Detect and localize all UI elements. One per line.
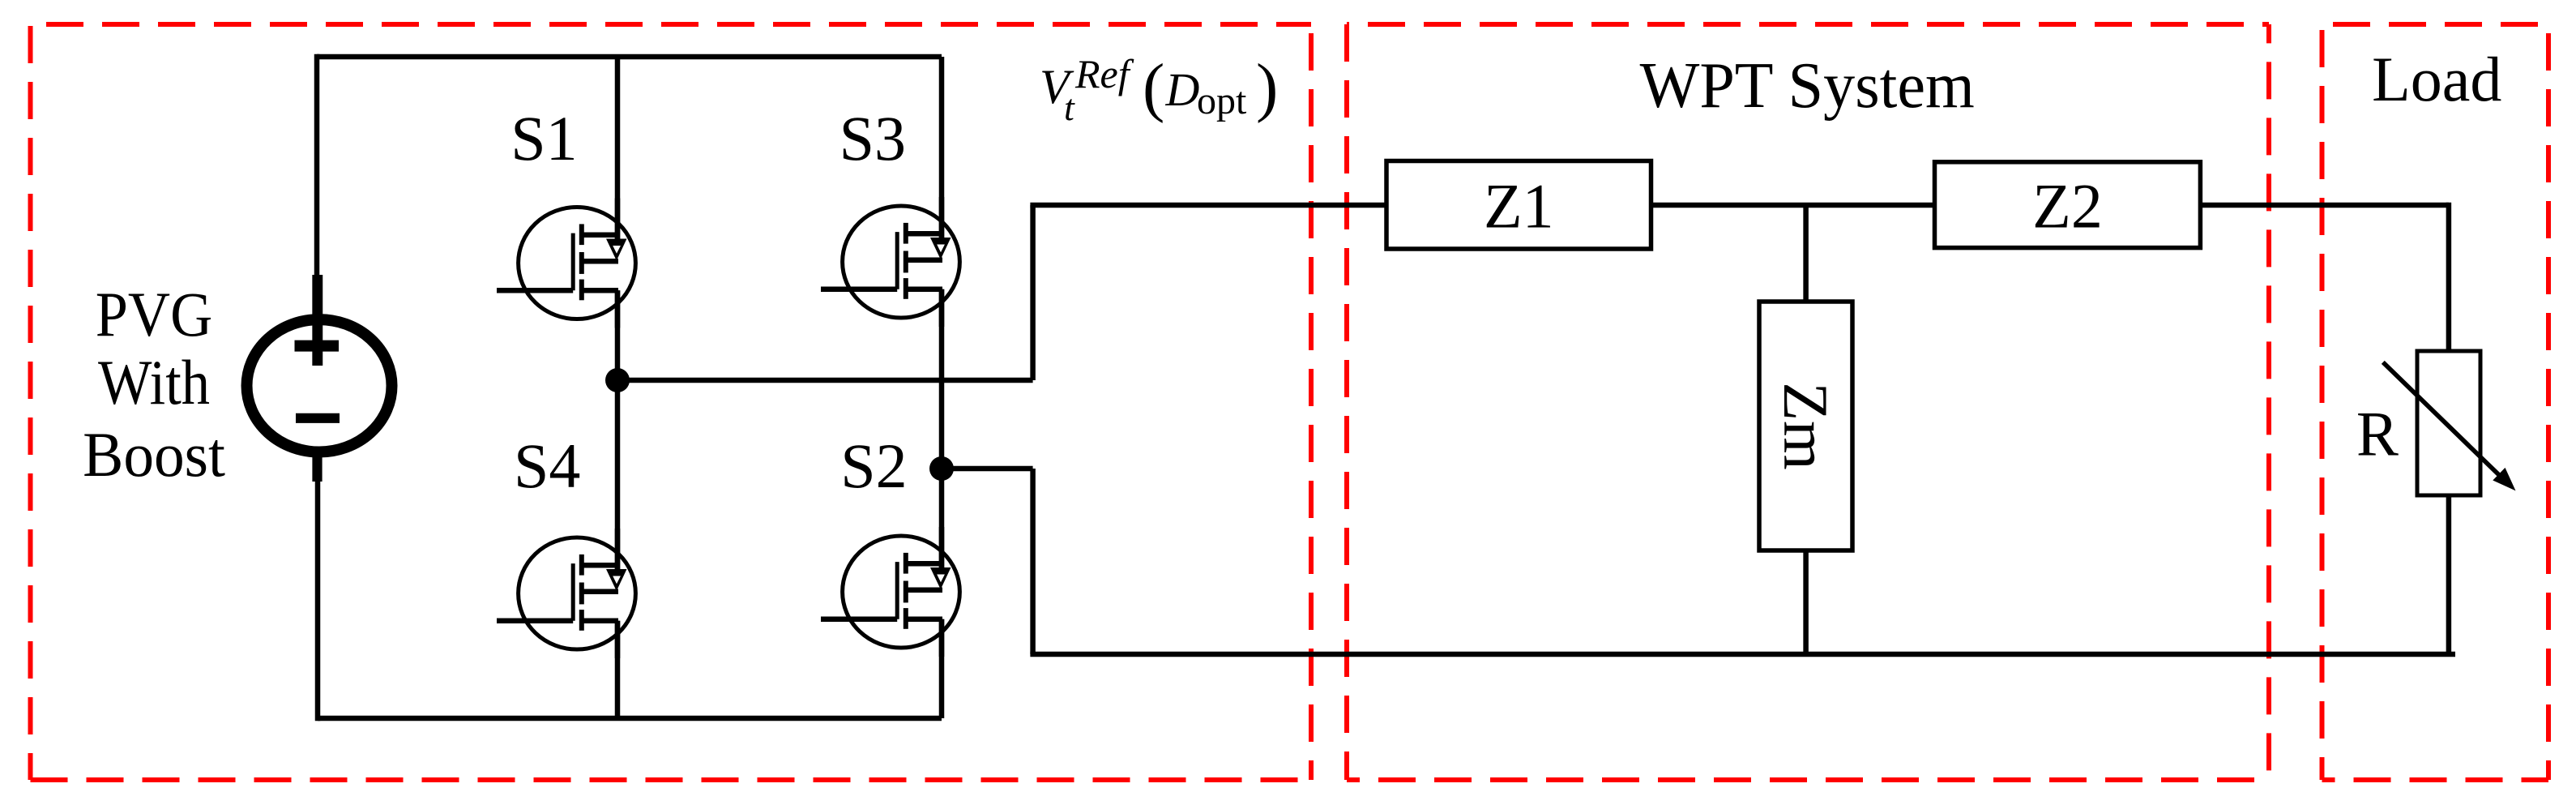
resistor R variable arrow <box>2383 362 2514 490</box>
wire: bridge bottom rail <box>318 716 942 722</box>
wire: S1 source to node A <box>615 290 621 380</box>
impedance Z1 box <box>1386 161 1651 250</box>
impedance Zm box <box>1759 302 1852 550</box>
svg-text:Boost: Boost <box>83 419 225 490</box>
WPT box bottom edge <box>1347 777 2269 782</box>
wire: node B to S2 drain <box>939 469 945 571</box>
wire: Zm top stem <box>1803 205 1809 302</box>
node B junction dot <box>929 456 954 481</box>
Load box left edge <box>2320 24 2325 780</box>
wire: S3 source to node B <box>939 289 945 469</box>
svg-text:opt: opt <box>1197 79 1247 122</box>
transistor S3 <box>821 197 959 327</box>
svg-text:(: ( <box>1143 50 1164 124</box>
wire: Z1 to Z2 <box>1651 203 1937 208</box>
wire: Zm bottom stem <box>1803 550 1809 654</box>
wire: bottom return rail <box>1030 652 2455 657</box>
voltage source V1 circle <box>247 319 392 452</box>
svg-text:S3: S3 <box>839 103 906 173</box>
svg-text:S1: S1 <box>511 103 577 173</box>
resistor R box <box>2417 351 2480 495</box>
PVG box left edge <box>28 24 33 780</box>
wire: load drop to R <box>2446 203 2452 351</box>
Load box bottom edge <box>2322 777 2549 782</box>
svg-text:S2: S2 <box>840 430 907 501</box>
voltage source plus lead stub <box>312 275 323 366</box>
WPT box top edge <box>1347 22 2269 27</box>
voltage source bottom stub <box>312 452 322 482</box>
svg-text:S4: S4 <box>514 430 580 501</box>
wire: top feed to Z1 <box>1030 203 1389 208</box>
transistor S1 <box>497 199 635 328</box>
wire: output riser down <box>1030 469 1036 654</box>
wire: top rail corners down <box>314 54 320 280</box>
svg-text:Z1: Z1 <box>1484 170 1554 241</box>
svg-text:WPT System: WPT System <box>1640 50 1975 122</box>
svg-text:Z2: Z2 <box>2032 170 2103 241</box>
wire: S4 source to bottom rail <box>615 621 621 718</box>
wire: S2 source to bottom rail <box>939 619 945 718</box>
wire: bridge top rail <box>317 54 942 60</box>
svg-text:With: With <box>98 347 210 417</box>
voltage source minus bar <box>296 413 340 423</box>
svg-text:R: R <box>2356 399 2399 469</box>
WPT box right edge <box>2266 24 2271 780</box>
PVG box right edge <box>1309 24 1314 780</box>
wire: node A to S4 drain <box>615 380 621 572</box>
svg-text:Ref: Ref <box>1074 51 1134 96</box>
wire: output riser up <box>1030 205 1036 380</box>
svg-text:PVG: PVG <box>96 279 213 349</box>
transistor S4 <box>497 529 635 658</box>
wire: source bottom to bottom rail <box>315 452 321 721</box>
PVG box bottom edge <box>31 777 1312 782</box>
svg-text:Load: Load <box>2372 44 2501 114</box>
svg-text:Zm: Zm <box>1771 382 1841 469</box>
wire: R bottom stem <box>2446 495 2452 654</box>
wire: node A horizontal <box>617 378 1033 383</box>
PVG box top edge <box>31 22 1312 27</box>
transistor S2 <box>821 527 959 657</box>
Load box top edge <box>2322 22 2549 27</box>
wire: S1 drain from top rail <box>615 57 621 242</box>
WPT box left edge <box>1344 24 1349 780</box>
svg-text:t: t <box>1064 87 1075 128</box>
svg-text:D: D <box>1165 63 1200 116</box>
node A junction dot <box>605 368 630 392</box>
wire: Z2 to load corner <box>2200 203 2449 208</box>
impedance Z2 box <box>1935 162 2201 248</box>
label PVG With Boost <box>83 279 225 490</box>
voltage source plus crossbar <box>295 340 340 352</box>
formula V_t^Ref (D_opt) <box>1040 50 1278 129</box>
svg-text:): ) <box>1256 50 1278 124</box>
wire: node B horizontal <box>942 466 1033 472</box>
Load box right edge <box>2546 24 2551 780</box>
wire: S3 drain from top rail <box>939 57 945 241</box>
